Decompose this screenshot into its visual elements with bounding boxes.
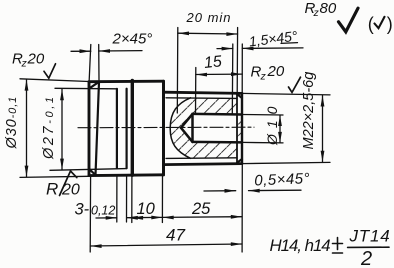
svg-text:0,12: 0,12 — [91, 204, 115, 218]
svg-text:Ø10: Ø10 — [264, 101, 280, 146]
svg-text:): ) — [387, 14, 393, 34]
svg-text:3-: 3- — [75, 201, 90, 219]
svg-text:0,5×45°: 0,5×45° — [254, 170, 310, 189]
svg-text:z: z — [313, 7, 320, 19]
svg-text:Ø30-0,1: Ø30-0,1 — [4, 96, 20, 150]
svg-text:20: 20 — [61, 182, 80, 199]
svg-text:(: ( — [368, 14, 374, 34]
svg-text:20 min: 20 min — [186, 10, 232, 25]
svg-text:10: 10 — [137, 200, 156, 218]
svg-text:47: 47 — [166, 226, 185, 245]
svg-text:2: 2 — [360, 248, 372, 268]
svg-text:20: 20 — [267, 63, 285, 80]
svg-text:z: z — [21, 58, 28, 70]
svg-text:M22×2,5-6g: M22×2,5-6g — [301, 72, 317, 150]
svg-text:JT14: JT14 — [349, 227, 391, 246]
svg-text:1,5×45°: 1,5×45° — [248, 28, 299, 50]
svg-text:z: z — [260, 71, 267, 83]
svg-text:80: 80 — [320, 0, 337, 17]
svg-text:2×45°: 2×45° — [112, 31, 153, 48]
svg-text:R: R — [46, 180, 58, 199]
svg-text:15: 15 — [203, 53, 223, 72]
svg-text:Ø27-0,1: Ø27-0,1 — [41, 94, 57, 160]
svg-text:H14, h14: H14, h14 — [270, 236, 331, 255]
svg-text:20: 20 — [27, 51, 45, 68]
svg-text:25: 25 — [191, 200, 211, 218]
